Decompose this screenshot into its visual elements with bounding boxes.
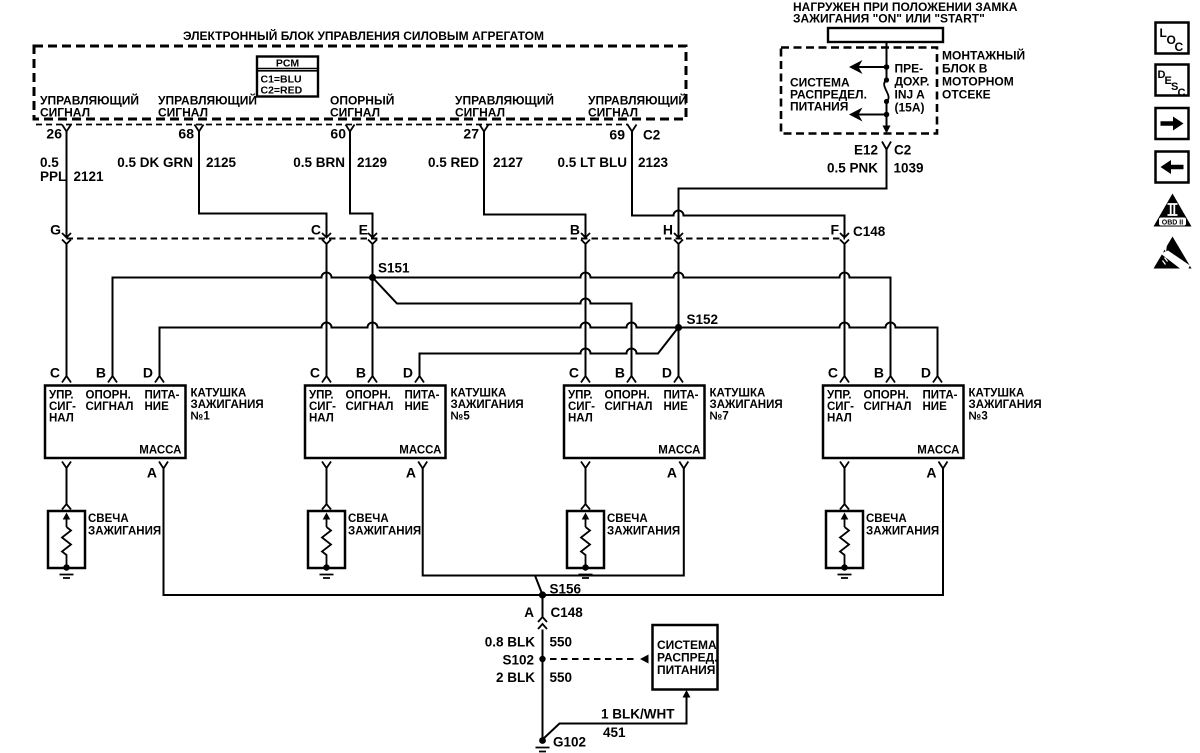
svg-text:ПИТА-: ПИТА- xyxy=(923,390,958,402)
svg-text:A: A xyxy=(926,465,936,481)
S152 dot xyxy=(675,324,682,331)
wire label 0.5 PNK 1039 xyxy=(827,161,924,176)
splice S152 net power to coil1 D and coil3 D xyxy=(160,323,938,377)
svg-text:СИГНАЛ: СИГНАЛ xyxy=(86,401,134,413)
branch arrow upper to СИСТЕМА xyxy=(849,60,887,74)
C148 connector chevrons at C xyxy=(322,233,331,244)
coil3 output fork xyxy=(840,462,849,469)
svg-text:2 BLK: 2 BLK xyxy=(496,670,535,685)
svg-text:НАЛ: НАЛ xyxy=(309,413,334,425)
wire E to S151 to coil5 pin B xyxy=(372,244,374,376)
svg-text:БЛОК В: БЛОК В xyxy=(942,62,988,76)
pin 69 fork xyxy=(628,125,637,132)
svg-text:СИГНАЛ: СИГНАЛ xyxy=(158,106,208,120)
svg-text:СИГ-: СИГ- xyxy=(49,401,76,413)
svg-text:2123: 2123 xyxy=(638,155,669,170)
svg-text:0.5 PNK: 0.5 PNK xyxy=(827,161,878,176)
coil5 pin B fork xyxy=(368,376,377,383)
svg-text:СИГНАЛ: СИГНАЛ xyxy=(864,401,912,413)
svg-text:C: C xyxy=(828,365,838,381)
svg-text:A: A xyxy=(667,465,677,481)
svg-text:26: 26 xyxy=(46,126,62,142)
wire label 2 BLK 550 xyxy=(496,670,572,685)
svg-text:C2: C2 xyxy=(894,143,911,158)
svg-text:C2: C2 xyxy=(643,128,660,143)
PCM dashed box xyxy=(34,46,686,119)
svg-text:H: H xyxy=(663,222,673,238)
svg-text:1 BLK/WHT: 1 BLK/WHT xyxy=(601,707,675,722)
svg-text:ЗАЖИГАНИЯ: ЗАЖИГАНИЯ xyxy=(88,526,161,538)
svg-text:0.5 RED: 0.5 RED xyxy=(428,155,479,170)
spark plug 3 ground dot xyxy=(841,564,847,570)
svg-text:УПР.: УПР. xyxy=(49,390,74,402)
svg-text:PCM: PCM xyxy=(276,58,300,70)
ground bus wire coil5 A to coil7 A xyxy=(423,469,684,576)
S151 branch to coil7 B xyxy=(374,279,632,377)
S102 label xyxy=(502,653,534,668)
svg-text:D: D xyxy=(143,365,153,381)
svg-text:№1: №1 xyxy=(191,411,211,423)
svg-text:PPL: PPL xyxy=(40,169,66,184)
coil3 pin letters xyxy=(828,365,931,381)
icon next arrow button xyxy=(1156,108,1189,139)
svg-text:D: D xyxy=(403,365,413,381)
coil5 inner labels xyxy=(309,390,442,457)
spark plug 7 ground xyxy=(579,575,593,579)
svg-text:0.5 DK GRN: 0.5 DK GRN xyxy=(117,155,193,170)
PCM label box xyxy=(257,57,318,97)
pin 60 fork xyxy=(346,125,355,132)
svg-text:0.8 BLK: 0.8 BLK xyxy=(485,635,536,650)
svg-text:S102: S102 xyxy=(502,653,534,668)
fuse label xyxy=(895,62,930,115)
coil3 name xyxy=(969,388,1042,423)
svg-text:ПРЕ-: ПРЕ- xyxy=(895,62,924,76)
svg-text:B: B xyxy=(96,365,106,381)
svg-text:2125: 2125 xyxy=(206,155,237,170)
coil5 pin A letter xyxy=(406,465,416,481)
PCM pin 27 label xyxy=(455,93,554,120)
svg-text:ОТСЕКЕ: ОТСЕКЕ xyxy=(942,88,991,102)
svg-text:КАТУШКА: КАТУШКА xyxy=(451,388,507,400)
svg-text:B: B xyxy=(570,222,580,238)
svg-text:ЗАЖИГАНИЯ: ЗАЖИГАНИЯ xyxy=(969,399,1042,411)
svg-text:СИГНАЛ: СИГНАЛ xyxy=(605,401,653,413)
svg-text:ЗАЖИГАНИЯ: ЗАЖИГАНИЯ xyxy=(866,526,939,538)
svg-text:60: 60 xyxy=(330,126,346,142)
S152 label xyxy=(687,312,719,327)
svg-text:C: C xyxy=(50,365,60,381)
svg-text:НИЕ: НИЕ xyxy=(923,401,948,413)
pin 26 number xyxy=(46,126,62,142)
svg-text:0.5 BRN: 0.5 BRN xyxy=(293,155,345,170)
coil1 output wire xyxy=(66,468,68,504)
junction dot lower xyxy=(884,112,890,118)
svg-text:СИГ-: СИГ- xyxy=(827,401,854,413)
pin 27 fork xyxy=(480,125,489,132)
wire RED pin27 to C148 B xyxy=(484,132,586,238)
dashed link arrowhead xyxy=(640,655,649,664)
svg-text:НАЛ: НАЛ xyxy=(568,413,593,425)
svg-text:№5: №5 xyxy=(451,411,471,423)
C148 pin letters xyxy=(50,222,839,238)
svg-text:A: A xyxy=(147,465,157,481)
svg-text:МОТОРНОМ: МОТОРНОМ xyxy=(942,75,1014,89)
svg-text:A: A xyxy=(406,465,416,481)
svg-text:C: C xyxy=(1178,87,1186,99)
wire label 0.5 RED 2127 xyxy=(428,155,523,170)
coil1 pin A letter xyxy=(147,465,157,481)
spark plug 7 resistor xyxy=(581,527,590,566)
pin 69 number and C2 xyxy=(609,127,660,143)
svg-text:C148: C148 xyxy=(853,224,886,239)
svg-text:СИГНАЛ: СИГНАЛ xyxy=(330,106,380,120)
coil7 pin B fork xyxy=(627,376,636,383)
svg-text:МАССА: МАССА xyxy=(399,445,441,457)
svg-text:КАТУШКА: КАТУШКА xyxy=(969,388,1025,400)
connector A C148 chevrons xyxy=(538,617,547,629)
C148 name xyxy=(853,224,886,239)
svg-text:E: E xyxy=(359,222,368,238)
PCM pin 26 label xyxy=(40,93,139,120)
svg-text:S151: S151 xyxy=(378,261,410,276)
wire H through S152 to coil7 pin D xyxy=(678,244,680,376)
coil3 pin D fork xyxy=(933,376,942,383)
svg-text:B: B xyxy=(356,365,366,381)
wire F to coil3 pin C xyxy=(844,244,846,376)
svg-text:G: G xyxy=(50,222,61,238)
svg-text:УПР.: УПР. xyxy=(568,390,593,402)
icon OBD II symbol xyxy=(1154,194,1192,227)
spark plug 1 box xyxy=(48,511,85,568)
coil1 pin B fork xyxy=(108,376,117,383)
coil1 pin letters xyxy=(50,365,153,381)
svg-text:2121: 2121 xyxy=(74,169,105,184)
spark plug 1 ground xyxy=(60,575,74,579)
ignition coil 3 box xyxy=(823,386,964,459)
svg-text:68: 68 xyxy=(178,126,194,142)
C148 connector chevrons at B xyxy=(581,233,590,244)
coil7 pin D fork xyxy=(674,376,683,383)
coil3 pin B fork xyxy=(886,376,895,383)
svg-text:0.5 LT BLU: 0.5 LT BLU xyxy=(557,155,627,170)
svg-text:ПИТА-: ПИТА- xyxy=(405,390,440,402)
svg-text:СВЕЧА: СВЕЧА xyxy=(348,513,389,525)
svg-text:ЗАЖИГАНИЯ: ЗАЖИГАНИЯ xyxy=(451,399,524,411)
ignition coil 5 box xyxy=(305,386,446,459)
coil7 pin C fork xyxy=(581,376,590,383)
svg-text:МАССА: МАССА xyxy=(139,445,181,457)
wire DK GRN pin68 to C148 C xyxy=(199,132,327,238)
svg-text:ОПОРН.: ОПОРН. xyxy=(346,390,391,402)
svg-text:ПИТАНИЯ: ПИТАНИЯ xyxy=(657,663,715,677)
svg-text:C: C xyxy=(569,365,579,381)
svg-text:550: 550 xyxy=(550,670,573,685)
coil1 plug connector chevron xyxy=(62,504,71,510)
spark plug 1 arrow xyxy=(63,513,71,528)
wire label 1 BLK/WHT 451 xyxy=(601,707,675,741)
svg-text:МАССА: МАССА xyxy=(917,445,959,457)
wire label 0.5 DK GRN 2125 xyxy=(117,155,236,170)
coil3 pin A fork xyxy=(939,462,948,469)
coil5 output fork xyxy=(322,462,331,469)
ignition coil 1 box xyxy=(45,386,186,459)
svg-text:СВЕЧА: СВЕЧА xyxy=(866,513,907,525)
svg-text:D: D xyxy=(921,365,931,381)
coil5 name xyxy=(451,388,524,423)
dashed link S102 to power distribution box xyxy=(550,658,638,660)
svg-text:СИГНАЛ: СИГНАЛ xyxy=(588,106,638,120)
spark plug 3 arrow xyxy=(841,513,849,528)
svg-text:INJ A: INJ A xyxy=(895,88,926,102)
svg-text:2129: 2129 xyxy=(357,155,387,170)
C148 connector chevrons at H xyxy=(674,233,683,244)
svg-text:C: C xyxy=(311,222,321,238)
svg-text:F: F xyxy=(830,222,839,238)
branch arrow lower to СИСТЕМА xyxy=(849,108,887,122)
svg-text:451: 451 xyxy=(603,725,626,740)
S151 dot xyxy=(369,274,376,281)
spark plug 3 ground xyxy=(838,575,852,579)
PCM pin 69 label xyxy=(588,93,687,120)
svg-text:№3: №3 xyxy=(969,411,988,423)
wire label 0.8 BLK 550 xyxy=(485,635,572,650)
pin 68 fork xyxy=(195,125,204,132)
wire bus to fuse xyxy=(886,42,888,80)
svg-text:ДОХР.: ДОХР. xyxy=(895,75,930,89)
coil7 pin A fork xyxy=(679,462,688,469)
svg-text:ЭЛЕКТРОННЫЙ БЛОК УПРАВЛЕНИЯ СИ: ЭЛЕКТРОННЫЙ БЛОК УПРАВЛЕНИЯ СИЛОВЫМ АГРЕ… xyxy=(183,28,544,43)
wire label 0.5 PPL 2121 xyxy=(40,155,104,184)
svg-text:СВЕЧА: СВЕЧА xyxy=(607,513,648,525)
spark plug 5 ground dot xyxy=(323,564,329,570)
coil1 name xyxy=(191,388,264,423)
power distribution system box xyxy=(653,625,718,690)
svg-text:СИГ-: СИГ- xyxy=(309,401,336,413)
svg-text:ЗАЖИГАНИЯ: ЗАЖИГАНИЯ xyxy=(191,399,264,411)
svg-text:ЗАЖИГАНИЯ: ЗАЖИГАНИЯ xyxy=(607,526,680,538)
svg-text:G102: G102 xyxy=(553,735,586,750)
wire G to coil1 pin C xyxy=(66,244,68,376)
bus bar box xyxy=(828,28,943,42)
icon back arrow button xyxy=(1156,152,1189,183)
spark plug 1 resistor xyxy=(62,527,71,566)
coil5 pin A fork xyxy=(418,462,427,469)
svg-text:ПИТАНИЯ: ПИТАНИЯ xyxy=(790,100,848,114)
svg-text:D: D xyxy=(662,365,672,381)
svg-text:СИГНАЛ: СИГНАЛ xyxy=(455,106,505,120)
svg-text:C: C xyxy=(1175,40,1184,54)
svg-text:B: B xyxy=(874,365,884,381)
spark plug 7 ground dot xyxy=(582,564,588,570)
pin 27 number xyxy=(463,126,479,142)
wire label 0.5 BRN 2129 xyxy=(293,155,387,170)
splice S156 dot xyxy=(539,591,546,598)
svg-text:27: 27 xyxy=(463,126,479,142)
svg-text:МОНТАЖНЫЙ: МОНТАЖНЫЙ xyxy=(942,48,1025,63)
wire PPL pin26 to C148 G xyxy=(66,132,68,238)
svg-text:УПР.: УПР. xyxy=(309,390,334,402)
монтажный блок label xyxy=(942,48,1025,102)
coil7 pin letters xyxy=(569,365,672,381)
pin 68 number xyxy=(178,126,194,142)
pin 26 fork xyxy=(62,125,71,132)
spark plug 5 resistor xyxy=(322,527,331,566)
spark plug 3 label xyxy=(866,513,939,538)
spark plug 1 label xyxy=(88,513,161,538)
wire 0.8 BLK to S102 xyxy=(542,630,544,739)
svg-text:ПИТА-: ПИТА- xyxy=(145,390,180,402)
svg-text:A: A xyxy=(524,605,534,620)
coil3 output wire xyxy=(844,468,846,504)
spark plug 5 ground xyxy=(320,575,334,579)
svg-text:2127: 2127 xyxy=(493,155,523,170)
svg-text:E12: E12 xyxy=(854,143,878,158)
coil3 pin A letter xyxy=(926,465,936,481)
pin 60 number xyxy=(330,126,346,142)
svg-text:ОПОРН.: ОПОРН. xyxy=(605,390,650,402)
fuse block caption line1 xyxy=(793,0,1018,14)
splice S102 dot xyxy=(539,656,545,662)
svg-text:69: 69 xyxy=(609,127,625,143)
svg-text:УПР.: УПР. xyxy=(827,390,852,402)
coil1 pin C fork xyxy=(62,376,71,383)
spark plug 3 resistor xyxy=(840,527,849,566)
svg-text:НАЛ: НАЛ xyxy=(827,413,852,425)
svg-text:ЗАЖИГАНИЯ: ЗАЖИГАНИЯ xyxy=(348,526,421,538)
svg-text:СИГНАЛ: СИГНАЛ xyxy=(346,401,394,413)
arrow into power distribution box xyxy=(683,690,691,698)
icon LOC button xyxy=(1156,23,1189,55)
coil5 output wire xyxy=(326,468,328,504)
connector C148 dashed line xyxy=(67,238,846,240)
coil7 output wire xyxy=(585,468,587,504)
svg-text:S156: S156 xyxy=(550,582,582,597)
junction dot upper xyxy=(884,64,890,70)
svg-text:C148: C148 xyxy=(551,605,584,620)
E12 fork xyxy=(882,142,891,150)
coil1 pin D fork xyxy=(155,376,164,383)
wire fuse to box edge with arrow xyxy=(883,102,891,134)
svg-text:OBD II: OBD II xyxy=(1162,220,1183,227)
fuse block caption line2 xyxy=(793,12,985,26)
ground G102 symbol xyxy=(536,748,550,752)
svg-text:ЗАЖИГАНИЯ "ON" ИЛИ "START": ЗАЖИГАНИЯ "ON" ИЛИ "START" xyxy=(793,12,985,26)
coil3 plug connector chevron xyxy=(840,504,849,510)
coil1 pin A fork xyxy=(159,462,168,469)
svg-text:ЗАЖИГАНИЯ: ЗАЖИГАНИЯ xyxy=(710,399,783,411)
PCM pin 68 label xyxy=(158,93,257,120)
svg-text:МАССА: МАССА xyxy=(658,445,700,457)
svg-text:НИЕ: НИЕ xyxy=(664,401,689,413)
svg-text:СВЕЧА: СВЕЧА xyxy=(88,513,129,525)
E12 C2 labels xyxy=(854,143,911,158)
fuse box dashed xyxy=(781,48,937,134)
C148 connector chevrons at G xyxy=(62,233,71,244)
coil5 pin letters xyxy=(310,365,413,381)
coil5 pin C fork xyxy=(322,376,331,383)
coil7 pin A letter xyxy=(667,465,677,481)
svg-text:№7: №7 xyxy=(710,411,729,423)
svg-text:ОПОРН.: ОПОРН. xyxy=(86,390,131,402)
coil1 output fork xyxy=(62,462,71,469)
svg-text:B: B xyxy=(615,365,625,381)
coil5 plug connector chevron xyxy=(322,504,331,510)
splice S151 net to coil1 B and coil3 B xyxy=(113,273,891,377)
PCM C2 connector dashed line xyxy=(36,124,628,126)
connector A C148 labels xyxy=(524,605,583,620)
icon ESD warning symbol xyxy=(1154,237,1192,269)
svg-text:ПИТА-: ПИТА- xyxy=(664,390,699,402)
wire LT BLU pin69 to C148 F with hop over PNK xyxy=(632,132,845,238)
coil7 plug connector chevron xyxy=(581,504,590,510)
svg-text:КАТУШКА: КАТУШКА xyxy=(710,388,766,400)
ground bus wire coil1 A to coil3 A xyxy=(164,469,944,596)
C148 connector chevrons at E xyxy=(368,233,377,244)
ground bus diagonal into S156 xyxy=(535,576,542,594)
система распредел питания label xyxy=(790,76,867,114)
wire BRN pin60 to C148 E xyxy=(350,132,373,238)
wire B to coil7 pin C xyxy=(585,244,587,376)
S151 label xyxy=(378,261,410,276)
spark plug 5 box xyxy=(308,511,345,568)
svg-text:C: C xyxy=(310,365,320,381)
coil7 output fork xyxy=(581,462,590,469)
svg-text:550: 550 xyxy=(550,635,573,650)
coil7 inner labels xyxy=(568,390,701,457)
svg-text:НИЕ: НИЕ xyxy=(405,401,430,413)
S156 label xyxy=(550,582,582,597)
svg-text:0.5: 0.5 xyxy=(40,155,59,170)
PCM pin 60 label xyxy=(330,93,394,120)
wire 1 BLK/WHT to G102 xyxy=(543,698,687,740)
coil1 inner labels xyxy=(49,390,182,457)
C148 connector chevrons at F xyxy=(840,233,849,244)
svg-text:НАЛ: НАЛ xyxy=(49,413,74,425)
svg-text:КАТУШКА: КАТУШКА xyxy=(191,388,247,400)
wire PNK E12 to C148 H xyxy=(679,150,887,238)
coil7 name xyxy=(710,388,783,423)
svg-text:1039: 1039 xyxy=(894,161,924,176)
spark plug 5 arrow xyxy=(323,513,331,528)
wire S156 to connector A C148 xyxy=(542,595,544,617)
svg-text:НИЕ: НИЕ xyxy=(145,401,170,413)
fuse element INJ A xyxy=(884,77,889,104)
G102 label xyxy=(553,735,586,750)
coil3 inner labels xyxy=(827,390,960,457)
ignition coil 7 box xyxy=(564,386,705,459)
svg-text:СИГ-: СИГ- xyxy=(568,401,595,413)
coil5 pin D fork xyxy=(415,376,424,383)
svg-text:СИГНАЛ: СИГНАЛ xyxy=(40,106,90,120)
ground G102 dot xyxy=(539,737,546,744)
svg-text:(15А): (15А) xyxy=(895,101,925,115)
spark plug 5 label xyxy=(348,513,421,538)
spark plug 3 box xyxy=(826,511,863,568)
svg-text:ОПОРН.: ОПОРН. xyxy=(864,390,909,402)
svg-text:C2=RED: C2=RED xyxy=(261,85,303,97)
icon DESC button xyxy=(1156,65,1189,100)
coil3 pin C fork xyxy=(840,376,849,383)
spark plug 7 box xyxy=(567,511,604,568)
spark plug 7 arrow xyxy=(582,513,590,528)
wire C to coil5 pin C xyxy=(326,244,328,376)
S152 branch to coil5 D xyxy=(420,329,678,377)
power distribution system label xyxy=(657,638,718,677)
wire label 0.5 LT BLU 2123 xyxy=(557,155,668,170)
spark plug 1 ground dot xyxy=(63,564,69,570)
svg-text:S152: S152 xyxy=(687,312,719,327)
